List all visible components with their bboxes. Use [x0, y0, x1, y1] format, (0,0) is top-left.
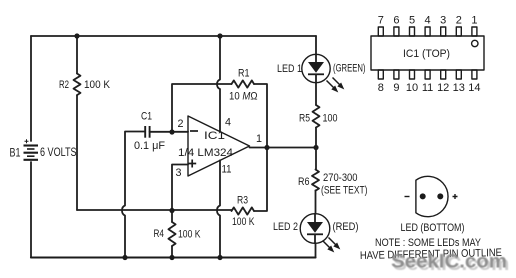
resistor R5 [313, 83, 320, 148]
LED1 (green LED) [302, 54, 330, 82]
svg-text:IC1: IC1 [204, 130, 225, 142]
op-amp minus sign [190, 130, 198, 132]
op-amp IC1 triangle [188, 116, 250, 176]
resistor R6 [312, 148, 319, 214]
svg-text:12: 12 [437, 82, 449, 94]
svg-text:11: 11 [222, 164, 232, 176]
svg-text:1/4 LM324: 1/4 LM324 [178, 147, 233, 159]
svg-text:(GREEN): (GREEN) [333, 63, 366, 75]
svg-text:0.1 μF: 0.1 μF [134, 140, 165, 152]
svg-text:2: 2 [456, 14, 462, 26]
svg-text:IC1 (TOP): IC1 (TOP) [403, 48, 450, 60]
svg-text:10: 10 [406, 82, 418, 94]
svg-text:9: 9 [393, 82, 399, 94]
junction pin3 / R4 [169, 208, 174, 213]
junction ground / pin11 [217, 255, 222, 260]
svg-text:SeekIC.com: SeekIC.com [391, 251, 507, 273]
wire left vertical to battery [30, 36, 32, 141]
svg-text:R5: R5 [299, 113, 310, 125]
svg-text:(SEE TEXT): (SEE TEXT) [321, 185, 368, 197]
svg-text:1: 1 [256, 133, 262, 145]
svg-text:LED 2: LED 2 [273, 221, 298, 233]
LED1 light arrows [327, 78, 343, 92]
wire R3 right to output node [254, 148, 267, 212]
wire pin11 to ground with hop over R3 wire [217, 160, 220, 257]
LED2 light arrows [323, 238, 339, 252]
svg-text:2: 2 [178, 118, 184, 130]
wire R1 right down to output node [254, 84, 267, 148]
svg-text:6 VOLTS: 6 VOLTS [40, 147, 77, 159]
IC bottom pin numbers 8-14 [378, 82, 481, 94]
junction pin2 / feedback [169, 129, 174, 134]
resistor R3 [232, 207, 255, 214]
svg-text:R4: R4 [154, 228, 165, 240]
svg-text:4: 4 [425, 14, 431, 26]
wire pin2 node up to feedback [172, 84, 232, 132]
resistor R2 [74, 36, 81, 210]
svg-text:10 MΩ: 10 MΩ [229, 91, 258, 103]
IC top pin numbers 7-1 [378, 14, 478, 26]
svg-text:5: 5 [409, 14, 415, 26]
svg-text:LED 1: LED 1 [277, 63, 302, 75]
svg-text:100 K: 100 K [84, 79, 111, 91]
op-amp plus sign [188, 160, 196, 168]
svg-text:14: 14 [468, 82, 480, 94]
svg-text:B1: B1 [10, 148, 21, 160]
svg-text:LED (BOTTOM): LED (BOTTOM) [401, 222, 465, 234]
svg-text:11: 11 [422, 82, 433, 94]
junction output / feedback [264, 145, 269, 150]
IC top pin stubs [378, 27, 477, 36]
svg-text:4: 4 [225, 117, 231, 129]
LED2 (red LED) [300, 214, 330, 258]
capacitor C1 [145, 126, 149, 138]
svg-text:(RED): (RED) [333, 221, 359, 233]
svg-text:100 K: 100 K [178, 229, 201, 241]
svg-text:3: 3 [440, 14, 446, 26]
IC bottom pin stubs [378, 70, 477, 79]
wire C1 right to pin2 [150, 131, 188, 133]
resistor R4 [168, 211, 175, 258]
svg-text:3: 3 [176, 167, 182, 179]
resistor R1 [232, 80, 255, 87]
LED bottom-view outline symbol [405, 176, 458, 216]
wire pin4 to +V rail with hop over feedback [217, 36, 220, 132]
junction top rail / R2 [74, 33, 79, 38]
svg-text:R3: R3 [237, 195, 248, 207]
svg-text:270-300: 270-300 [323, 172, 358, 184]
svg-text:1: 1 [471, 14, 477, 26]
svg-text:C1: C1 [141, 111, 152, 123]
wire battery minus to bottom rail [30, 162, 32, 258]
svg-text:100 K: 100 K [232, 216, 255, 228]
wire output pin1 [250, 147, 317, 149]
svg-text:R6: R6 [298, 176, 310, 188]
svg-text:100: 100 [323, 113, 338, 125]
pin1 indicator circle [472, 40, 478, 46]
wire C1 left to ground [122, 132, 145, 258]
wire top +V rail [31, 35, 316, 37]
svg-text:7: 7 [378, 14, 384, 26]
wire inverting feedback node y=210 [77, 209, 232, 211]
junction output / R5 R6 [313, 145, 318, 150]
svg-text:R1: R1 [238, 68, 250, 80]
svg-text:13: 13 [453, 82, 465, 94]
IC1 DIP-14 package (top view) [371, 36, 484, 70]
svg-text:8: 8 [378, 82, 384, 94]
wire bottom ground rail [31, 256, 316, 258]
wire pin3 to node [172, 165, 188, 211]
svg-text:6: 6 [393, 14, 399, 26]
junction ground / R4 [169, 255, 174, 260]
junction ground / C1 wire [122, 255, 127, 260]
battery B1 [24, 139, 39, 160]
junction top rail / pin4 [217, 33, 222, 38]
svg-text:R2: R2 [59, 79, 69, 91]
wire +V rail down to LED1 [315, 36, 317, 55]
